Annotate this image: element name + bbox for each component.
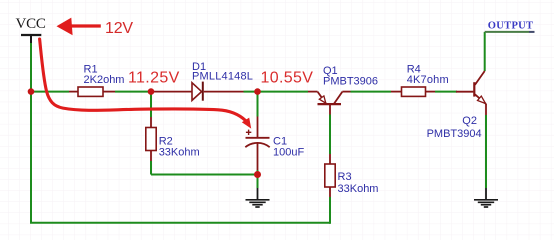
svg-text:2K2ohm: 2K2ohm bbox=[84, 74, 125, 86]
svg-text:4K7ohm: 4K7ohm bbox=[407, 74, 449, 86]
wire R2 bottom bbox=[150, 161, 152, 175]
svg-text:R3: R3 bbox=[338, 171, 352, 183]
wire R4 to Q2 base bbox=[435, 91, 457, 93]
wire R2 to ground node bbox=[151, 174, 258, 176]
junction at ground node bbox=[254, 171, 261, 178]
svg-text:33Kohm: 33Kohm bbox=[338, 183, 379, 195]
wire VCC node to R1 bbox=[31, 91, 69, 93]
wire node to C1 top bbox=[257, 92, 259, 117]
ground symbol under C1 bbox=[246, 188, 270, 207]
diode D1 bbox=[154, 82, 244, 101]
junction at VCC node bbox=[28, 88, 35, 95]
svg-text:33Kohm: 33Kohm bbox=[159, 146, 200, 158]
junction at R2 node bbox=[148, 88, 155, 95]
wire Q2 collector to OUTPUT bbox=[484, 32, 486, 71]
svg-text:11.25V: 11.25V bbox=[128, 70, 180, 87]
resistor R3 bbox=[325, 154, 335, 197]
ground symbol under Q2 bbox=[474, 188, 498, 207]
svg-text:PMBT3906: PMBT3906 bbox=[323, 75, 378, 87]
svg-text:VCC: VCC bbox=[16, 16, 46, 32]
svg-text:12V: 12V bbox=[105, 20, 133, 37]
svg-text:OUTPUT: OUTPUT bbox=[488, 21, 534, 32]
capacitor C1 bbox=[245, 117, 269, 171]
wire OUTPUT horizontal bbox=[485, 31, 529, 33]
transistor Q2 bbox=[456, 71, 486, 115]
annotation freehand curve bbox=[40, 39, 246, 121]
resistor R4 bbox=[391, 87, 435, 96]
wire C1 bottom to ground bbox=[257, 170, 259, 188]
power symbol VCC bbox=[16, 16, 46, 43]
svg-text:Q2: Q2 bbox=[462, 115, 477, 127]
transistor Q1 bbox=[308, 92, 351, 115]
svg-text:PMBT3904: PMBT3904 bbox=[427, 128, 482, 140]
svg-text:10.55V: 10.55V bbox=[261, 70, 314, 87]
annotation curve arrowhead bbox=[242, 118, 251, 129]
svg-text:PMLL4148L: PMLL4148L bbox=[192, 71, 253, 83]
wire R1 to D1 bbox=[115, 91, 154, 93]
wire node to R2 top bbox=[150, 92, 152, 117]
junction at C1 node bbox=[254, 88, 261, 95]
wire Q1 to R4 bbox=[351, 91, 392, 93]
annotation arrow 12V bbox=[57, 18, 101, 36]
resistor R2 bbox=[146, 117, 156, 161]
wire bottom rail bbox=[30, 222, 330, 224]
wire D1 to Q1 bbox=[244, 91, 309, 93]
wire Q2 emitter to ground bbox=[485, 115, 487, 188]
wire left vertical rail bbox=[30, 92, 32, 223]
wire Q1 base to R3 bbox=[329, 115, 331, 155]
resistor R1 bbox=[69, 87, 115, 96]
svg-text:100uF: 100uF bbox=[273, 146, 304, 158]
net OUTPUT anchor tip bbox=[529, 31, 535, 33]
wire R3 bottom to rail bbox=[329, 197, 331, 224]
wire VCC stem bbox=[30, 43, 32, 92]
